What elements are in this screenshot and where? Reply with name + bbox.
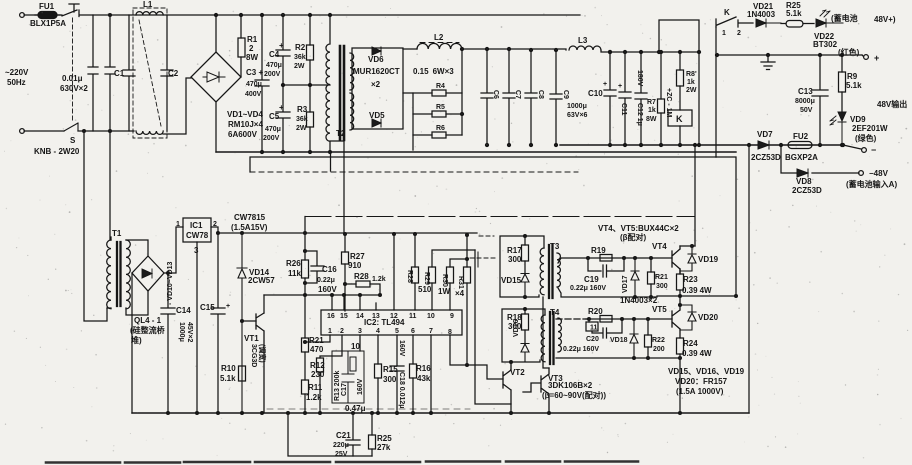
svg-text:5: 5	[395, 328, 399, 335]
svg-text:VD17: VD17	[622, 275, 629, 293]
switch K	[716, 17, 753, 27]
resistor R28h	[345, 284, 380, 295]
svg-text:R24: R24	[683, 339, 698, 348]
svg-text:R11: R11	[308, 383, 323, 392]
transformer T4 core	[550, 312, 554, 364]
transformer T1 right winding	[126, 240, 130, 309]
node AC input N terminal	[20, 129, 25, 134]
svg-text:470μ: 470μ	[265, 126, 281, 133]
wire L1 out bottom to bridge	[163, 78, 191, 134]
capacitor C19	[588, 258, 624, 277]
svg-text:C21: C21	[336, 431, 351, 440]
svg-text:12: 12	[390, 313, 398, 320]
svg-text:1000μ: 1000μ	[178, 322, 185, 342]
resistor R8'	[679, 52, 681, 110]
svg-text:C2: C2	[168, 69, 179, 78]
svg-text:×2: ×2	[371, 80, 381, 89]
transformer T3 core	[549, 245, 553, 298]
svg-text:2CW57: 2CW57	[248, 276, 275, 285]
svg-text:2W: 2W	[296, 125, 307, 132]
capacitor C2	[161, 15, 173, 131]
fuse FU1	[38, 12, 57, 19]
svg-text:5.1k: 5.1k	[220, 374, 236, 383]
resistor R21b	[650, 258, 652, 297]
svg-text:6: 6	[411, 328, 415, 335]
svg-text:2CZ53D: 2CZ53D	[751, 153, 781, 162]
resistor R2	[309, 15, 311, 85]
wire ground rail bottom	[132, 412, 749, 414]
svg-text:0.15 6W×3: 0.15 6W×3	[413, 67, 454, 76]
capacitor C1	[123, 15, 135, 131]
capacitor C10	[604, 52, 616, 145]
diode VD16	[521, 344, 529, 363]
svg-text:3: 3	[194, 246, 199, 255]
wire IC2 pin12 up to +15	[393, 234, 395, 310]
diode VD17	[631, 258, 639, 297]
wire half-bridge midpoint rail	[283, 84, 330, 86]
wire secondary ground right drop	[748, 145, 750, 413]
inductor L1 core link dashed	[139, 20, 161, 126]
svg-text:R17: R17	[507, 246, 522, 255]
svg-text:1.2k: 1.2k	[306, 393, 322, 402]
wire T3 sec top row to VT4 base	[558, 258, 672, 263]
inductor L1 top winding	[136, 12, 163, 15]
svg-text:4: 4	[376, 328, 380, 335]
switch S upper pole	[62, 4, 79, 17]
capacitor C8	[525, 50, 537, 145]
wire box out to L2	[403, 48, 417, 50]
svg-text:C15: C15	[200, 303, 215, 312]
transformer T2 secondary winding	[350, 53, 354, 130]
resistor R29 column	[432, 250, 475, 310]
transformer T3 right winding	[557, 253, 560, 287]
wire L2 to output rail	[462, 49, 699, 52]
capacitor C21	[346, 413, 360, 456]
wire T4 sec top row to VT5 base	[556, 318, 588, 320]
svg-text:C5: C5	[269, 112, 280, 121]
diode VD20	[680, 305, 696, 330]
svg-text:堆): 堆)	[131, 335, 142, 345]
box 11 C20 branch	[588, 319, 590, 322]
svg-text:R9: R9	[847, 72, 858, 81]
wire VT2 collector to T4	[510, 361, 513, 364]
wire IC2 pin6 R16	[412, 335, 414, 413]
switch S lower pole	[64, 123, 78, 131]
drive cell T3 box	[500, 236, 544, 297]
svg-text:L2: L2	[434, 33, 444, 42]
resistor R19	[600, 255, 612, 262]
node -48V out terminal	[862, 148, 867, 153]
svg-text:36k: 36k	[296, 116, 308, 123]
svg-text:1W: 1W	[438, 287, 450, 296]
node +48V terminal	[864, 55, 869, 60]
capacitor C14	[161, 273, 175, 413]
transformer T4 left winding	[541, 315, 545, 362]
svg-text:C18 0.012μ: C18 0.012μ	[398, 372, 405, 409]
svg-text:C19: C19	[584, 275, 599, 284]
svg-text:R21: R21	[655, 274, 668, 281]
svg-text:2: 2	[249, 44, 254, 53]
svg-text:VD15、VD16、VD19: VD15、VD16、VD19	[668, 367, 745, 376]
svg-text:6A600V: 6A600V	[228, 130, 258, 139]
wire top rail	[24, 14, 580, 16]
svg-text:VT1: VT1	[244, 334, 259, 343]
svg-text:50Hz: 50Hz	[7, 78, 26, 87]
svg-text:VD16: VD16	[513, 319, 520, 337]
transformer T4 right winding	[558, 318, 561, 352]
svg-text:3CG3D: 3CG3D	[250, 344, 257, 367]
wire sense resistor left column	[403, 93, 413, 150]
svg-text:VD18: VD18	[610, 337, 628, 344]
capacitor C9	[550, 50, 562, 145]
svg-text:K: K	[676, 114, 683, 124]
transformer T1 core	[117, 242, 121, 306]
inductor L1 bottom winding	[136, 131, 163, 134]
svg-text:+: +	[603, 81, 607, 88]
svg-text:910: 910	[348, 261, 362, 270]
wire VT4 collector feed	[694, 145, 696, 246]
svg-text:5.1k: 5.1k	[786, 9, 802, 18]
capacitor C16	[305, 251, 324, 283]
svg-text:27k: 27k	[377, 443, 391, 452]
svg-text:(β配对): (β配对)	[620, 232, 647, 242]
svg-text:300: 300	[508, 255, 522, 264]
transformer T2 primary winding	[326, 15, 344, 234]
svg-text:11: 11	[409, 313, 417, 320]
capacitor C4	[276, 15, 290, 85]
svg-text:2: 2	[340, 328, 344, 335]
svg-text:16: 16	[327, 313, 335, 320]
wire bridge plus to C14 direction (primary return rail)	[216, 151, 736, 153]
svg-text:160V: 160V	[318, 285, 337, 294]
capacitor C7	[503, 49, 515, 145]
dashed stub near R31	[470, 257, 496, 259]
svg-text:C7: C7	[514, 90, 521, 99]
svg-text:C13: C13	[798, 87, 813, 96]
capacitor 0.01u #1	[88, 15, 98, 131]
resistor R30 column	[450, 259, 467, 310]
transformer T1 left winding	[107, 240, 111, 309]
svg-text:63V×6: 63V×6	[567, 112, 588, 119]
svg-text:VD5: VD5	[369, 111, 385, 120]
diode VD15	[521, 274, 529, 298]
svg-text:C6: C6	[492, 90, 499, 99]
svg-text:VT4: VT4	[652, 242, 667, 251]
svg-text:200V: 200V	[263, 135, 280, 142]
svg-text:2W: 2W	[686, 87, 697, 94]
svg-text:R15: R15	[383, 365, 398, 374]
resistor R7	[660, 52, 662, 145]
capacitor C13	[812, 55, 828, 145]
svg-text:7: 7	[429, 328, 433, 335]
svg-text:R29: R29	[423, 272, 430, 285]
svg-text:48V输出: 48V输出	[877, 99, 907, 109]
svg-text:(β=60~90V(配对)): (β=60~90V(配对))	[542, 390, 606, 400]
svg-text:1N4003: 1N4003	[747, 10, 776, 19]
svg-text:10: 10	[351, 342, 360, 351]
svg-text:45V×2: 45V×2	[186, 322, 193, 343]
svg-text:R7: R7	[647, 99, 656, 106]
wire IC2 pin5 C18	[390, 335, 404, 413]
zener VD14	[237, 233, 247, 413]
svg-text:160V: 160V	[357, 378, 364, 395]
resistor R1	[238, 38, 245, 57]
wire T1 secondary to QL bridge	[126, 240, 148, 315]
svg-text:5.1k: 5.1k	[846, 81, 862, 90]
svg-text:VD1~VD4: VD1~VD4	[227, 110, 263, 119]
svg-text:L1: L1	[143, 0, 153, 9]
svg-text:(绿色): (绿色)	[855, 133, 877, 143]
svg-text:510: 510	[418, 285, 432, 294]
svg-text:C1: C1	[114, 69, 125, 78]
svg-text:1.2k: 1.2k	[372, 276, 386, 283]
wire IC2 pin2	[320, 335, 342, 358]
drive cell T4 box	[502, 309, 545, 362]
svg-text:C8: C8	[537, 90, 544, 99]
inductor L2	[417, 43, 462, 49]
svg-text:8000μ: 8000μ	[795, 98, 815, 105]
svg-text:R23: R23	[683, 275, 698, 284]
wire T4 sec bottom row	[556, 357, 680, 359]
svg-text:43k: 43k	[417, 374, 431, 383]
svg-text:VD20：FR157: VD20：FR157	[675, 377, 728, 386]
feedback line y217	[305, 216, 694, 218]
svg-text:BT302: BT302	[813, 40, 838, 49]
svg-text:BLX1P5A: BLX1P5A	[30, 19, 66, 28]
svg-text:0.01μ: 0.01μ	[62, 74, 83, 83]
svg-text:T3: T3	[550, 242, 560, 251]
svg-text:25V: 25V	[335, 451, 348, 458]
inductor L3	[569, 46, 601, 50]
wire C21 R25 branch	[288, 413, 372, 456]
svg-text:R3: R3	[297, 105, 308, 114]
wire drive feed line	[250, 157, 716, 172]
svg-text:+: +	[279, 41, 284, 50]
svg-text:(蓄电池: (蓄电池	[831, 13, 858, 23]
svg-text:+: +	[226, 303, 230, 310]
svg-text:1000μ: 1000μ	[567, 103, 587, 110]
relay coil K	[668, 110, 692, 126]
svg-text:C20: C20	[586, 336, 599, 343]
svg-text:14: 14	[356, 313, 364, 320]
svg-text:R30: R30	[441, 274, 448, 287]
wire VT4 collector	[680, 245, 695, 247]
wire IC2 pin7	[430, 335, 432, 413]
svg-text:R20: R20	[588, 307, 603, 316]
resistor R5	[413, 113, 462, 115]
svg-text:300: 300	[383, 375, 397, 384]
wire IC2 pin8 to VT2 base	[450, 335, 503, 379]
svg-text:C9: C9	[562, 90, 569, 99]
wire VT1 base tap	[242, 320, 256, 322]
LED VD9	[838, 112, 846, 145]
svg-text:VD8: VD8	[796, 177, 812, 186]
wire top rail to bridge top	[215, 15, 217, 52]
svg-text:IC1: IC1	[190, 221, 203, 230]
wire IC1 pin2 to +15 rail	[211, 227, 477, 233]
svg-text:VD20: VD20	[698, 313, 719, 322]
resistor R18	[524, 309, 526, 343]
svg-text:~220V: ~220V	[5, 68, 29, 77]
resistor R31 column	[466, 235, 468, 365]
svg-text:230: 230	[311, 370, 325, 379]
wire IC2 pin4	[377, 335, 379, 413]
svg-text:R1: R1	[247, 35, 258, 44]
wire T2 bottom to dashed line connector	[330, 152, 332, 171]
diode VD19	[680, 246, 696, 271]
svg-text:1: 1	[328, 328, 332, 335]
svg-text:0.39 4W: 0.39 4W	[682, 349, 712, 358]
svg-text:CW78: CW78	[186, 231, 209, 240]
svg-text:CW7815: CW7815	[234, 213, 266, 222]
capacitor C3	[255, 15, 269, 152]
svg-text:8W: 8W	[646, 116, 657, 123]
transformer T2 core	[340, 46, 344, 140]
svg-text:15: 15	[340, 313, 348, 320]
svg-text:C17: C17	[341, 383, 348, 396]
svg-text:180V: 180V	[636, 70, 643, 87]
bridge diode symbol	[203, 72, 225, 82]
svg-text:R25: R25	[377, 434, 392, 443]
svg-text:R28: R28	[406, 270, 413, 283]
wire IC1 pin3 to ground rail	[196, 242, 198, 413]
svg-text:2CZ53D: 2CZ53D	[792, 186, 822, 195]
wire bottom AC rail	[24, 130, 134, 132]
svg-text:IC2: TL494: IC2: TL494	[364, 318, 405, 327]
rectifier module VD5 VD6 box	[352, 48, 403, 129]
diode VD5 symbol	[372, 119, 381, 127]
resistor R4	[413, 92, 462, 94]
resistor R21 column	[304, 295, 306, 380]
resistor R12	[317, 358, 324, 372]
svg-text:VT4、VT5:BUX44C×2: VT4、VT5:BUX44C×2	[598, 224, 679, 233]
svg-text:8: 8	[448, 329, 452, 336]
regulator IC1 box	[183, 218, 211, 242]
svg-text:(调宽): (调宽)	[258, 344, 267, 363]
svg-text:C4: C4	[269, 50, 280, 59]
svg-text:0.22μ 160V: 0.22μ 160V	[563, 346, 599, 353]
svg-text:VD15: VD15	[501, 276, 522, 285]
svg-text:470μ: 470μ	[246, 81, 262, 88]
svg-text:R16: R16	[416, 364, 431, 373]
svg-text:S: S	[70, 136, 76, 145]
svg-text:0.47μ: 0.47μ	[345, 404, 366, 413]
resistor R26 column	[304, 233, 306, 295]
svg-text:200V: 200V	[264, 71, 281, 78]
svg-text:2: 2	[213, 221, 217, 228]
transistor VT2	[503, 362, 511, 404]
transistor VT4	[672, 246, 680, 273]
capacitor C5	[276, 85, 290, 152]
svg-text:R21: R21	[309, 336, 324, 345]
svg-text:160V: 160V	[398, 340, 405, 357]
transistor VT3	[523, 368, 549, 413]
svg-text:R28: R28	[354, 272, 369, 281]
wire feedback row	[264, 294, 380, 296]
resistor R10	[239, 366, 246, 381]
svg-text:470μ: 470μ	[266, 62, 282, 69]
wire midpoint row	[657, 295, 736, 297]
svg-text:R31: R31	[457, 276, 464, 289]
node battery input terminal	[859, 171, 864, 176]
svg-text:C11: C11	[620, 103, 627, 116]
bridge rectifier VD1-VD4 diamond	[191, 52, 241, 102]
svg-text:200: 200	[653, 346, 665, 353]
svg-text:R12: R12	[310, 361, 325, 370]
svg-text:BGXP2A: BGXP2A	[785, 153, 818, 162]
svg-text:T1: T1	[112, 229, 122, 238]
resistor R27	[344, 234, 346, 311]
wire 48V charge rail	[717, 54, 862, 56]
wire VT3 collector link	[543, 297, 549, 368]
bridge rectifier QL4 diamond	[132, 256, 164, 291]
resistor R9	[841, 55, 843, 112]
resistor R28 column	[414, 234, 416, 310]
capacitor 0.01u #2 / T1 feed	[105, 15, 115, 240]
wire IC2 pin16 pin15 up	[332, 295, 344, 310]
svg-text:1k: 1k	[687, 79, 695, 86]
svg-text:−48V: −48V	[869, 169, 889, 178]
svg-text:- VD10~VD13: - VD10~VD13	[167, 262, 174, 305]
svg-text:1N4003×2: 1N4003×2	[620, 296, 658, 305]
capacitor C11	[619, 52, 631, 145]
transformer T3 left winding	[540, 248, 544, 295]
wire QL minus to ground rail	[131, 273, 133, 413]
dashed scan line lower	[267, 408, 470, 410]
svg-text:+ZC - 1M: +ZC - 1M	[665, 88, 672, 118]
diode VD21	[756, 19, 781, 27]
svg-text:2: 2	[737, 30, 741, 37]
svg-text:VD9: VD9	[850, 115, 866, 124]
resistor R11	[302, 380, 309, 394]
svg-text:T4: T4	[550, 308, 560, 317]
fuse FU2	[788, 142, 812, 149]
svg-text:48V+): 48V+)	[874, 15, 896, 24]
svg-text:×4: ×4	[455, 289, 465, 298]
svg-text:R5: R5	[436, 104, 445, 111]
svg-text:VD6: VD6	[368, 55, 384, 64]
resistor R23	[679, 269, 681, 296]
svg-text:8W: 8W	[246, 53, 258, 62]
scan noise	[581, 15, 582, 16]
svg-text:VD7: VD7	[757, 130, 773, 139]
resistor R3	[309, 85, 311, 152]
capacitor C6	[481, 49, 493, 145]
svg-text:L3: L3	[578, 36, 588, 45]
svg-text:(硅整流桥: (硅整流桥	[130, 325, 166, 335]
svg-text:630V×2: 630V×2	[60, 84, 88, 93]
svg-text:0.22μ 160V: 0.22μ 160V	[570, 285, 606, 292]
wire IC2 pin14 pin13 up	[360, 295, 376, 310]
svg-text:VT2: VT2	[510, 368, 525, 377]
svg-text:13: 13	[372, 313, 380, 320]
svg-text:KNB - 2W20: KNB - 2W20	[34, 147, 80, 156]
svg-text:11k: 11k	[288, 269, 301, 278]
svg-text:11: 11	[590, 325, 598, 332]
caption strip bottom	[46, 462, 638, 463]
wire QL plus node	[164, 227, 183, 273]
svg-text:T2: T2	[336, 129, 346, 138]
IC2 TL494 box	[321, 310, 462, 335]
resistor R6	[413, 134, 462, 136]
svg-text:MUR1620CT: MUR1620CT	[353, 67, 400, 76]
wire T3 sec bottom row	[558, 288, 657, 297]
resistor R17	[524, 236, 526, 273]
svg-text:R22: R22	[652, 337, 665, 344]
ground	[761, 55, 775, 70]
capacitor C15	[211, 233, 225, 413]
switch S mechanical link (dashed)	[72, 18, 74, 120]
